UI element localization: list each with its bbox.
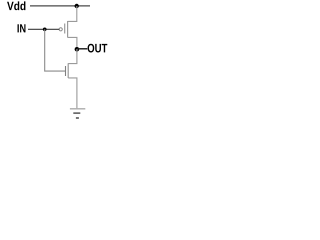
transistor Q1 PMOS gate plate <box>64 24 66 34</box>
transistor Q1 PMOS gate bubble <box>59 28 62 31</box>
ground bar 3 <box>76 117 79 119</box>
wire IN dot down to NMOS gate <box>45 29 65 71</box>
node OUT label <box>88 44 95 53</box>
ground bar 2 <box>73 112 80 114</box>
junction IN node <box>43 27 47 31</box>
wire OUT stub <box>77 48 87 50</box>
wire IN to gates <box>28 28 59 30</box>
transistor Q2 NMOS channel <box>67 63 69 78</box>
wire Vdd dot to PMOS source <box>68 6 77 21</box>
node Vdd label <box>7 2 14 10</box>
wire PMOS drain to OUT <box>68 37 77 49</box>
node IN label <box>18 24 19 32</box>
wire OUT dot down to NMOS drain <box>68 49 77 64</box>
junction Vdd-PMOS source <box>75 4 79 8</box>
wire NMOS source to ground <box>68 78 77 108</box>
transistor Q2 NMOS gate plate <box>65 66 67 76</box>
ground bar 1 <box>70 108 85 110</box>
wire Vdd rail <box>30 5 90 7</box>
transistor Q1 PMOS channel <box>67 21 69 38</box>
junction OUT node <box>75 47 80 52</box>
